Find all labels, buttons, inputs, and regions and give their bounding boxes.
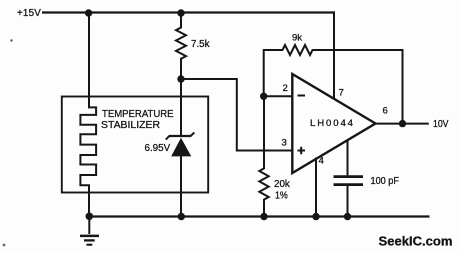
- speck artifact left: [10, 39, 12, 41]
- op-amp U1 LH0044 triangle: [292, 74, 375, 173]
- zener diode 6.95V: [166, 79, 195, 217]
- svg-text:7.5k: 7.5k: [191, 39, 210, 50]
- node junction output: [399, 120, 406, 127]
- svg-text:TEMPERATURE: TEMPERATURE: [102, 109, 174, 120]
- svg-text:STABILIZER: STABILIZER: [101, 120, 160, 131]
- node junction rail pin4: [312, 213, 319, 220]
- ground symbol: [80, 217, 99, 245]
- wire left branch with heater square-wave inside stabilizer: [80, 13, 96, 217]
- svg-text:SeekIC.com: SeekIC.com: [379, 234, 453, 249]
- wire bottom ground rail: [89, 215, 429, 217]
- node junction rail 20k: [260, 213, 267, 220]
- wire from zener node to op-amp pin 3: [181, 79, 292, 151]
- wire output pin 6 to 10V: [376, 123, 429, 125]
- wire pin 2: [264, 95, 293, 97]
- node junction rail left/ground: [86, 213, 94, 221]
- svg-text:3: 3: [282, 138, 287, 149]
- node junction on rail at left branch: [85, 9, 92, 16]
- svg-text:10V: 10V: [433, 119, 449, 130]
- resistor 7.5k: [176, 13, 186, 79]
- node junction 7.5k bottom / zener top: [177, 75, 184, 82]
- svg-text:1%: 1%: [275, 191, 288, 202]
- node junction pin 2 / 9k / 20k: [260, 93, 267, 100]
- node junction rail zener: [178, 213, 185, 220]
- wire pin 4 to ground rail: [315, 158, 317, 217]
- temperature stabilizer box: [62, 97, 208, 193]
- wire pin7 drop from rail: [333, 11, 335, 99]
- svg-text:6.95V: 6.95V: [145, 143, 171, 154]
- svg-text:+15V: +15V: [17, 8, 41, 19]
- svg-text:7: 7: [339, 88, 344, 99]
- resistor 9k: [264, 45, 403, 124]
- node junction on rail at 7.5k: [177, 9, 184, 16]
- op-amp minus sign: [298, 95, 306, 97]
- speck artifact bottom left: [3, 244, 6, 247]
- resistor 20k 1%: [259, 96, 268, 216]
- node junction rail capacitor: [344, 213, 351, 220]
- svg-text:20k: 20k: [274, 179, 290, 190]
- svg-text:4: 4: [319, 156, 325, 167]
- svg-text:100 pF: 100 pF: [371, 176, 400, 187]
- op-amp plus sign: [298, 147, 306, 154]
- svg-text:2: 2: [283, 83, 288, 94]
- capacitor C1 100 pF: [334, 140, 364, 216]
- svg-text:9k: 9k: [292, 33, 302, 44]
- svg-text:6: 6: [383, 106, 388, 117]
- wire top +15V rail: [42, 11, 334, 13]
